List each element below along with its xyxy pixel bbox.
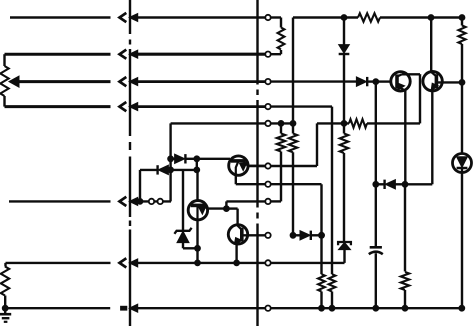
diode D5 (points right)	[293, 231, 322, 240]
junction D2 anode	[168, 167, 174, 173]
junction R11 bottom	[2, 305, 8, 311]
resistor R9	[329, 274, 336, 308]
wire top rail	[293, 16, 358, 18]
diode D3 (points down)	[339, 18, 350, 124]
wire node to Q3 top	[226, 209, 237, 225]
junction x321.5 row235	[319, 232, 325, 238]
potentiometer VR1 top wire	[5, 53, 111, 56]
potentiometer VR1 wiper arrow	[9, 76, 111, 87]
wire x375.8 vertical	[375, 82, 377, 247]
junction R8 bus	[319, 305, 325, 311]
resistor R8	[318, 274, 325, 308]
wire row5 mid segment	[137, 200, 171, 202]
wire row3 right	[268, 80, 356, 82]
connector J1 pin at y=106.6	[120, 102, 138, 111]
potentiometer VR1 bottom wire	[5, 105, 111, 108]
potentiometer VR1 body	[0, 54, 8, 106]
connector J1 pin (dash style) bottom	[121, 304, 138, 312]
resistor R10	[401, 272, 409, 308]
wire D6 row to Q5 emitter corner	[405, 183, 432, 185]
junction D6 row184 x405	[402, 181, 408, 187]
connector J2 pin at y=201.4	[265, 199, 270, 204]
diode D4 (points right)	[356, 77, 375, 86]
diode D2 (points left)	[140, 165, 171, 174]
junction row123 a	[278, 121, 284, 127]
wire node to row5 corner	[226, 201, 268, 208]
wire row2 mid	[137, 53, 268, 56]
junction row123 b	[290, 121, 296, 127]
connector J1 pin at y=81.6	[120, 77, 138, 86]
wire x293 vertical	[292, 18, 294, 124]
junction Q2 emitter row6	[195, 260, 201, 266]
junction D1 anode	[168, 156, 174, 162]
wire row1 left segment	[10, 16, 111, 18]
wire x281 down to row RL5	[268, 160, 281, 201]
wire x420 corner	[419, 73, 421, 76]
resistor R7	[458, 18, 465, 155]
transistor Q5	[423, 72, 442, 91]
wire D4 to Q4 base	[376, 80, 391, 82]
wire bottom bus right	[137, 307, 462, 309]
transistor Q2	[188, 201, 207, 220]
junction x344 row123	[341, 121, 347, 127]
connector J2 pin at y=308.2	[265, 306, 270, 311]
connector J2 pin at y=54.2	[265, 52, 270, 57]
junction D1 cathode	[194, 156, 200, 162]
wire row4 right	[268, 105, 332, 107]
wire row123 right a	[317, 122, 349, 124]
wire row123	[171, 122, 268, 124]
resistor R2a loop	[268, 18, 284, 55]
junction at x140 row5	[137, 199, 143, 205]
wire bottom bus left	[5, 307, 110, 309]
junction x293 row235	[290, 232, 296, 238]
wire Q3 base to pin	[243, 234, 268, 236]
junction top rail x344	[341, 15, 347, 21]
wire x321.5 vertical	[320, 184, 322, 274]
wire row166 to up corner	[248, 123, 317, 166]
junction Q2 collector node	[224, 206, 230, 212]
board boundary line (dash-dot) left	[129, 0, 131, 326]
junction bus right corner	[459, 305, 465, 311]
wire Q5 base right	[436, 81, 462, 83]
inline connector pin a	[149, 199, 154, 204]
junction y170 right	[194, 167, 200, 173]
connector J2 pin at y=184.2	[265, 182, 270, 187]
wire Q1 collector to pin	[248, 165, 268, 168]
zener Z1	[174, 170, 197, 248]
indicator diode DS1 (circled)	[453, 154, 472, 309]
wire row3 mid	[137, 80, 268, 83]
junction R9 bus	[329, 305, 335, 311]
board boundary line (dash-dot) right	[256, 0, 258, 326]
junction Q5 base x462	[459, 80, 465, 86]
transistor Q3	[228, 225, 247, 245]
diode D1 (points right)	[171, 154, 197, 163]
wire Q5 collector from rail	[430, 18, 432, 73]
connector J1 pin at y=201.4	[120, 197, 138, 206]
wire row184	[236, 175, 322, 184]
wire top rail b	[380, 16, 462, 18]
wire x140 vertical	[139, 170, 141, 202]
connector J2 pin at y=81.6	[265, 79, 270, 84]
connector J1 pin at y=54.2	[120, 50, 138, 59]
junction D5 row235	[319, 232, 325, 238]
junction Z1 to emitter	[195, 245, 201, 251]
junction top rail x431	[428, 15, 434, 21]
wire row123 right b	[367, 122, 420, 124]
resistor R4b	[340, 123, 348, 242]
resistor R6	[349, 119, 367, 127]
junction Q3 emitter row6	[234, 260, 240, 266]
connector J2 pin at y=235.3	[265, 233, 270, 238]
ground symbol	[0, 308, 11, 322]
wire row123 stub	[268, 122, 293, 124]
transistor Q1	[229, 156, 248, 175]
connector J1 pin at y=17.5	[120, 13, 138, 22]
wire x170.6 vertical	[169, 123, 171, 201]
wire D1 cathode to T1 base	[197, 158, 230, 160]
wire x405 vertical	[404, 91, 407, 272]
transistor Q4	[391, 72, 410, 91]
junction C1 bus	[373, 305, 379, 311]
wire Q4 collector top	[402, 73, 420, 75]
zener Z2	[338, 242, 351, 263]
connector J2 pin at y=106.6	[265, 104, 270, 109]
connector J1 pin at y=262.9	[120, 258, 138, 267]
wire Q5 emitter down	[431, 90, 433, 184]
resistor R5 (top rail)	[358, 13, 380, 21]
wire Q2 collector	[207, 207, 226, 209]
wire x332 vertical	[331, 107, 333, 274]
connector J2 pin at y=166.0	[265, 163, 270, 168]
wire y170 link	[171, 169, 197, 171]
wire Q3 emitter	[235, 244, 237, 263]
wire x197.5 vertical to T2	[196, 159, 199, 201]
connector J2 pin at y=262.9	[265, 260, 270, 265]
junction R10 bus	[402, 305, 408, 311]
connector J2 pin at y=123.4	[265, 121, 270, 126]
diode D6 (points left)	[376, 180, 405, 189]
inline connector pin b	[158, 199, 163, 204]
wire x293 down	[292, 152, 294, 235]
resistor R11 (left edge)	[1, 263, 9, 308]
wire row5 left	[9, 200, 111, 202]
resistor R3b	[289, 123, 297, 152]
connector J2 pin at y=17.5	[265, 15, 270, 20]
junction D4 cathode	[373, 79, 379, 85]
resistor R2b	[277, 123, 285, 160]
junction x375.8 row184	[373, 181, 379, 187]
capacitor C1	[369, 247, 383, 308]
wire row1 mid	[137, 16, 268, 18]
wire Q2 emitter	[196, 220, 198, 263]
junction rail right corner	[459, 15, 465, 21]
wire x420 vertical to Q4 collector	[419, 74, 421, 123]
wire row6	[6, 262, 345, 264]
wire row4 mid	[137, 105, 268, 108]
